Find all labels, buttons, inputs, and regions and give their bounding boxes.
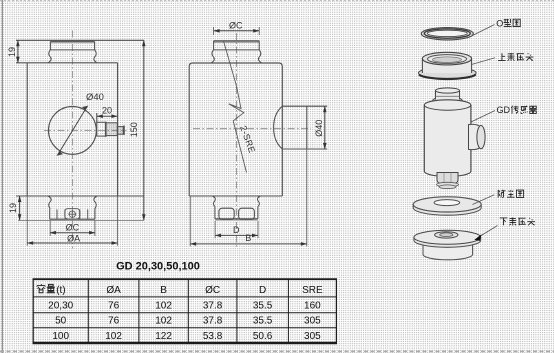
svg-text:ØA: ØA (106, 285, 121, 296)
cable break line (side view) (224, 41, 247, 173)
svg-text:D: D (259, 285, 266, 296)
svg-text:76: 76 (108, 316, 120, 327)
body outline (side view) (189, 63, 282, 196)
svg-text:102: 102 (105, 331, 122, 342)
svg-text:102: 102 (155, 316, 172, 327)
dimension 20 (front view) (97, 113, 118, 123)
svg-text:B: B (245, 233, 251, 243)
label upper head (498, 53, 506, 60)
svg-text:D: D (233, 225, 240, 235)
leader dust ring (473, 195, 495, 205)
svg-text:160: 160 (304, 300, 321, 311)
svg-text:B: B (160, 285, 167, 296)
svg-text:37.8: 37.8 (203, 316, 223, 327)
dimension OC (front view) (50, 220, 95, 236)
svg-text:SRE: SRE (302, 285, 323, 296)
body sides (front view) (26, 63, 28, 196)
svg-text:ØC: ØC (205, 285, 220, 296)
body top line (front view) (16, 62, 118, 64)
svg-text:20,30: 20,30 (48, 300, 73, 311)
dimension OA (front view) (27, 196, 117, 246)
svg-text:Ø40: Ø40 (314, 120, 324, 137)
scan edge left (1, 0, 3, 353)
svg-text:37.8: 37.8 (203, 300, 223, 311)
svg-text:O: O (496, 18, 503, 28)
table row 1 (48, 300, 321, 311)
boss intersection arc (side view) (274, 106, 283, 149)
hex nut right (side view) (239, 208, 255, 219)
dimension 19 bottom (front view) (19, 196, 21, 220)
centerline horizontal (side view) (193, 128, 311, 130)
extension line top (front view) (16, 39, 144, 41)
dimension O40 (side view) (324, 106, 326, 149)
hex nut left (side view) (219, 208, 234, 219)
svg-text:53.8: 53.8 (203, 331, 223, 342)
svg-text:50: 50 (55, 316, 67, 327)
svg-text:35.5: 35.5 (253, 316, 273, 327)
svg-text:50.6: 50.6 (253, 331, 273, 342)
GD sensor body (424, 88, 471, 177)
dust ring (413, 197, 481, 215)
side cable boss (exploded) (469, 124, 486, 149)
centerline vertical (side view) (235, 33, 237, 248)
svg-text:150: 150 (129, 122, 139, 137)
leader lower head with arrow (478, 226, 498, 238)
svg-text:35.5: 35.5 (253, 300, 273, 311)
svg-text:122: 122 (155, 331, 172, 342)
table grid (33, 279, 337, 343)
svg-text:(t): (t) (56, 285, 65, 296)
O-ring (421, 28, 473, 40)
label lower head (500, 218, 508, 225)
svg-text:Ø40: Ø40 (86, 92, 104, 103)
cable connector (front view) (97, 122, 124, 137)
table row 3 (52, 331, 321, 342)
center button circle (front view bottom cap) (68, 210, 76, 218)
leader O-ring (471, 25, 495, 37)
sensor bottom nut (437, 173, 459, 189)
bore circle O40 (front view) (49, 106, 97, 154)
centerline vertical (front view) (71, 31, 73, 249)
svg-text:19: 19 (7, 47, 17, 57)
svg-text:100: 100 (52, 331, 69, 342)
svg-text:ØA: ØA (67, 233, 80, 243)
centerline horizontal (front view) (44, 129, 127, 131)
svg-text:20: 20 (102, 105, 112, 115)
svg-text:102: 102 (155, 300, 172, 311)
leader upper head (472, 58, 496, 65)
svg-text:19: 19 (8, 203, 18, 213)
top cap (side view) (211, 41, 261, 63)
scan edge top (0, 0, 554, 2)
dimension B (side view) (190, 149, 307, 246)
lower bearing head (414, 230, 481, 259)
bottom cap (side view) (213, 196, 260, 220)
body bottom line (side view) (189, 195, 282, 197)
bottom cap (front view) (48, 196, 97, 220)
leader GD sensor (471, 111, 495, 123)
dimension OC (side view) (214, 27, 260, 35)
svg-text:GD 20,30,50,100: GD 20,30,50,100 (116, 261, 200, 273)
dimension D (side view) (215, 221, 258, 239)
svg-text:305: 305 (304, 331, 321, 342)
svg-text:ØC: ØC (229, 21, 243, 31)
svg-text:76: 76 (108, 300, 120, 311)
cable gland boss (side view) (282, 106, 327, 149)
scan edge bottom (0, 350, 554, 352)
extension line cap bottom (front view) (18, 219, 50, 221)
upper bearing head (419, 52, 477, 79)
top cap (front view) (48, 41, 97, 63)
dimension 150 (front view) (143, 40, 145, 220)
svg-text:ØC: ØC (66, 223, 80, 233)
table header row (37, 284, 323, 296)
body bottom line (front view) (16, 195, 144, 197)
svg-text:305: 305 (304, 316, 321, 327)
dimension 19 top (front view) (17, 40, 19, 63)
svg-text:GD: GD (497, 105, 511, 115)
table row 2 (55, 316, 321, 327)
diameter leader line in circle (58, 106, 88, 155)
label dust ring (498, 190, 505, 198)
